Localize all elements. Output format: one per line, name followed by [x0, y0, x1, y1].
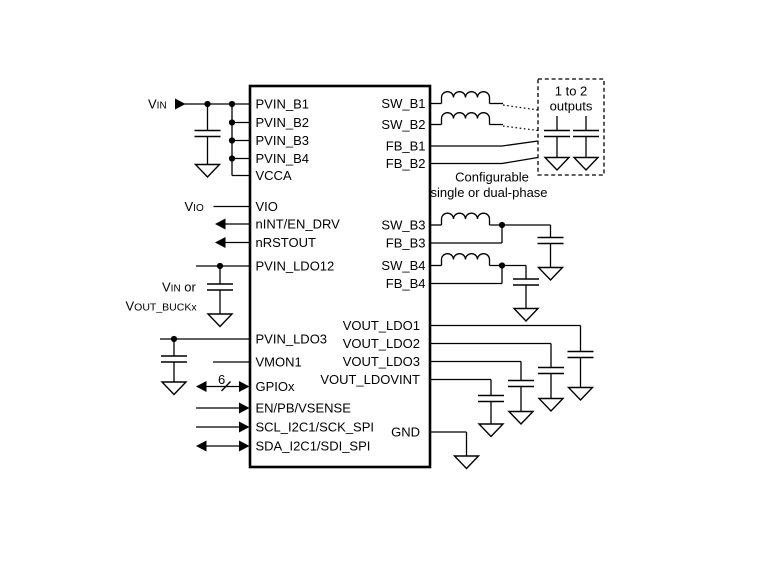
svg-text:VIO: VIO: [256, 199, 278, 214]
svg-text:VOUT_LDO2: VOUT_LDO2: [343, 336, 420, 351]
dotted link SW_B2 to output box: [503, 126, 538, 131]
wire SW_B4 to cap: [490, 265, 527, 267]
capacitor C11 (VOUT_LDOVINT): [478, 380, 504, 425]
inductor L2 (SW_B2): [442, 113, 490, 125]
capacitor C8 (VOUT_LDO1): [568, 326, 594, 388]
wire GND vertical: [466, 432, 468, 456]
ground G10: [509, 412, 533, 425]
output arrow nRSTOUT: [215, 237, 226, 248]
wire VIN to PVIN_B1: [184, 103, 250, 105]
wire VMON1: [213, 361, 250, 363]
wire FB_B4 vertical: [501, 266, 503, 284]
wire bus to PVIN_B2: [232, 122, 250, 124]
svg-text:SW_B3: SW_B3: [381, 218, 425, 233]
wire SW_B2 stub: [431, 124, 442, 126]
svg-text:SDA_I2C1/SDI_SPI: SDA_I2C1/SDI_SPI: [256, 439, 371, 454]
ground G12 (GND pin): [455, 456, 479, 469]
wire VOUT_LDO3: [431, 361, 522, 363]
wire FB_B2: [431, 158, 539, 164]
wire PVIN bus vertical: [231, 104, 233, 176]
svg-text:outputs: outputs: [550, 99, 593, 114]
dotted link SW_B1 to output box: [503, 105, 538, 110]
output arrow nINT/EN_DRV: [215, 219, 226, 230]
svg-text:PVIN_B3: PVIN_B3: [256, 133, 309, 148]
junction bus/PVIN_B4: [229, 155, 235, 161]
wire PVIN_LDO12: [196, 265, 250, 267]
svg-text:1 to 2: 1 to 2: [555, 84, 588, 99]
wire SW_B1 stub: [431, 103, 442, 105]
wire SDA_I2C1/SDI_SPI: [205, 445, 241, 447]
ground G7: [514, 309, 538, 322]
svg-text:VOUT_LDO1: VOUT_LDO1: [343, 318, 420, 333]
svg-text:SW_B2: SW_B2: [381, 117, 425, 132]
ground G8: [569, 388, 593, 401]
junction PVIN_LDO12 cap: [217, 263, 223, 269]
wire FB_B1: [431, 141, 539, 146]
svg-text:single or dual-phase: single or dual-phase: [430, 185, 547, 200]
capacitor C4 (output box left): [544, 116, 570, 158]
capacitor C3 (PVIN_LDO3): [161, 339, 187, 382]
junction bus/PVIN_B2: [229, 119, 235, 125]
wire SCL_I2C1/SCK_SPI: [196, 426, 241, 428]
wire VIO: [214, 206, 251, 208]
ground G1: [196, 165, 220, 178]
ground G2: [208, 314, 232, 327]
svg-text:VOUT_LDO3: VOUT_LDO3: [343, 354, 420, 369]
arrow GPIOx right: [239, 381, 250, 392]
wire VOUT_LDO2: [431, 343, 552, 345]
svg-text:VCCA: VCCA: [256, 168, 292, 183]
capacitor C7 (buck4 out): [513, 266, 539, 309]
svg-text:VOUT_LDOVINT: VOUT_LDOVINT: [320, 372, 420, 387]
junction SW_B4/FB_B4: [499, 262, 505, 268]
svg-text:PVIN_LDO3: PVIN_LDO3: [256, 332, 328, 347]
arrow SCL_I2C1/SCK_SPI: [239, 422, 250, 433]
svg-text:FB_B1: FB_B1: [386, 139, 426, 154]
svg-text:PVIN_B4: PVIN_B4: [256, 151, 309, 166]
wire SW_B2 to dotted: [490, 124, 504, 126]
junction bus/PVIN_B3: [229, 137, 235, 143]
wire SW_B4 stub: [431, 265, 442, 267]
ground G9: [539, 399, 563, 412]
wire VOUT_LDO1: [431, 325, 581, 327]
svg-text:PVIN_B2: PVIN_B2: [256, 115, 309, 130]
wire nINT/EN_DRV: [224, 223, 250, 225]
capacitor C9 (VOUT_LDO2): [538, 344, 564, 399]
junction SW_B3/FB_B3: [499, 222, 505, 228]
input arrow VIN: [175, 99, 186, 110]
svg-text:Configurable: Configurable: [455, 170, 529, 185]
svg-text:VOUT_BUCKx: VOUT_BUCKx: [126, 299, 198, 314]
op-amp U1: PMIC IC block: [250, 86, 430, 467]
wire GPIOx: [205, 386, 241, 388]
svg-text:FB_B4: FB_B4: [386, 276, 426, 291]
wire EN/PB/VSENSE: [196, 407, 241, 409]
capacitor C10 (VOUT_LDO3): [508, 362, 534, 412]
arrow EN/PB/VSENSE: [239, 403, 250, 414]
inductor L1 (SW_B1): [442, 92, 490, 104]
svg-text:GND: GND: [391, 425, 420, 440]
arrow GPIOx left: [196, 381, 207, 392]
wire FB_B4: [431, 283, 503, 285]
ground G3: [162, 382, 186, 395]
wire SW_B3 to cap: [490, 224, 551, 226]
junction bus/PVIN_B1: [229, 101, 235, 107]
svg-text:PVIN_B1: PVIN_B1: [256, 97, 309, 112]
capacitor C1 (VIN input): [195, 104, 221, 165]
inductor L4 (SW_B4): [442, 254, 490, 266]
svg-text:SW_B4: SW_B4: [381, 258, 425, 273]
svg-text:nINT/EN_DRV: nINT/EN_DRV: [256, 217, 341, 232]
inductor L3 (SW_B3): [442, 213, 490, 225]
svg-text:EN/PB/VSENSE: EN/PB/VSENSE: [256, 401, 352, 416]
svg-text:PVIN_LDO12: PVIN_LDO12: [256, 259, 335, 274]
wire PVIN_LDO3: [160, 338, 250, 340]
ground G6: [539, 268, 563, 281]
wire FB_B3 vertical: [501, 225, 503, 243]
capacitor C5 (output box right): [573, 116, 599, 158]
dashed box: 1 to 2 outputs: [538, 79, 604, 175]
wire bus to PVIN_B4: [232, 158, 250, 160]
ground G5: [574, 158, 598, 171]
wire FB_B3: [431, 242, 503, 244]
arrow SDA left: [196, 441, 207, 452]
wire SW_B1 to dotted: [490, 103, 504, 105]
arrow SDA right: [239, 441, 250, 452]
svg-text:SW_B1: SW_B1: [381, 96, 425, 111]
junction PVIN_LDO3 cap: [171, 336, 177, 342]
junction at VIN cap: [204, 101, 210, 107]
ground G11: [479, 424, 503, 437]
svg-text:nRSTOUT: nRSTOUT: [256, 235, 316, 250]
wire SW_B3 stub: [431, 224, 442, 226]
ground G4: [545, 158, 569, 171]
wire bus to PVIN_B3: [232, 140, 250, 142]
svg-text:GPIOx: GPIOx: [256, 379, 296, 394]
bus slash GPIOx: [222, 382, 231, 392]
svg-text:SCL_I2C1/SCK_SPI: SCL_I2C1/SCK_SPI: [256, 420, 375, 435]
capacitor C2 (PVIN_LDO12): [207, 266, 233, 314]
svg-text:FB_B2: FB_B2: [386, 156, 426, 171]
svg-text:6: 6: [218, 372, 225, 387]
wire bus to VCCA: [232, 175, 250, 177]
wire VOUT_LDOVINT: [431, 379, 492, 381]
svg-text:FB_B3: FB_B3: [386, 236, 426, 251]
wire GND horizontal: [431, 431, 467, 433]
wire nRSTOUT: [224, 242, 250, 244]
capacitor C6 (buck3 out): [538, 225, 564, 268]
svg-text:VMON1: VMON1: [256, 355, 302, 370]
